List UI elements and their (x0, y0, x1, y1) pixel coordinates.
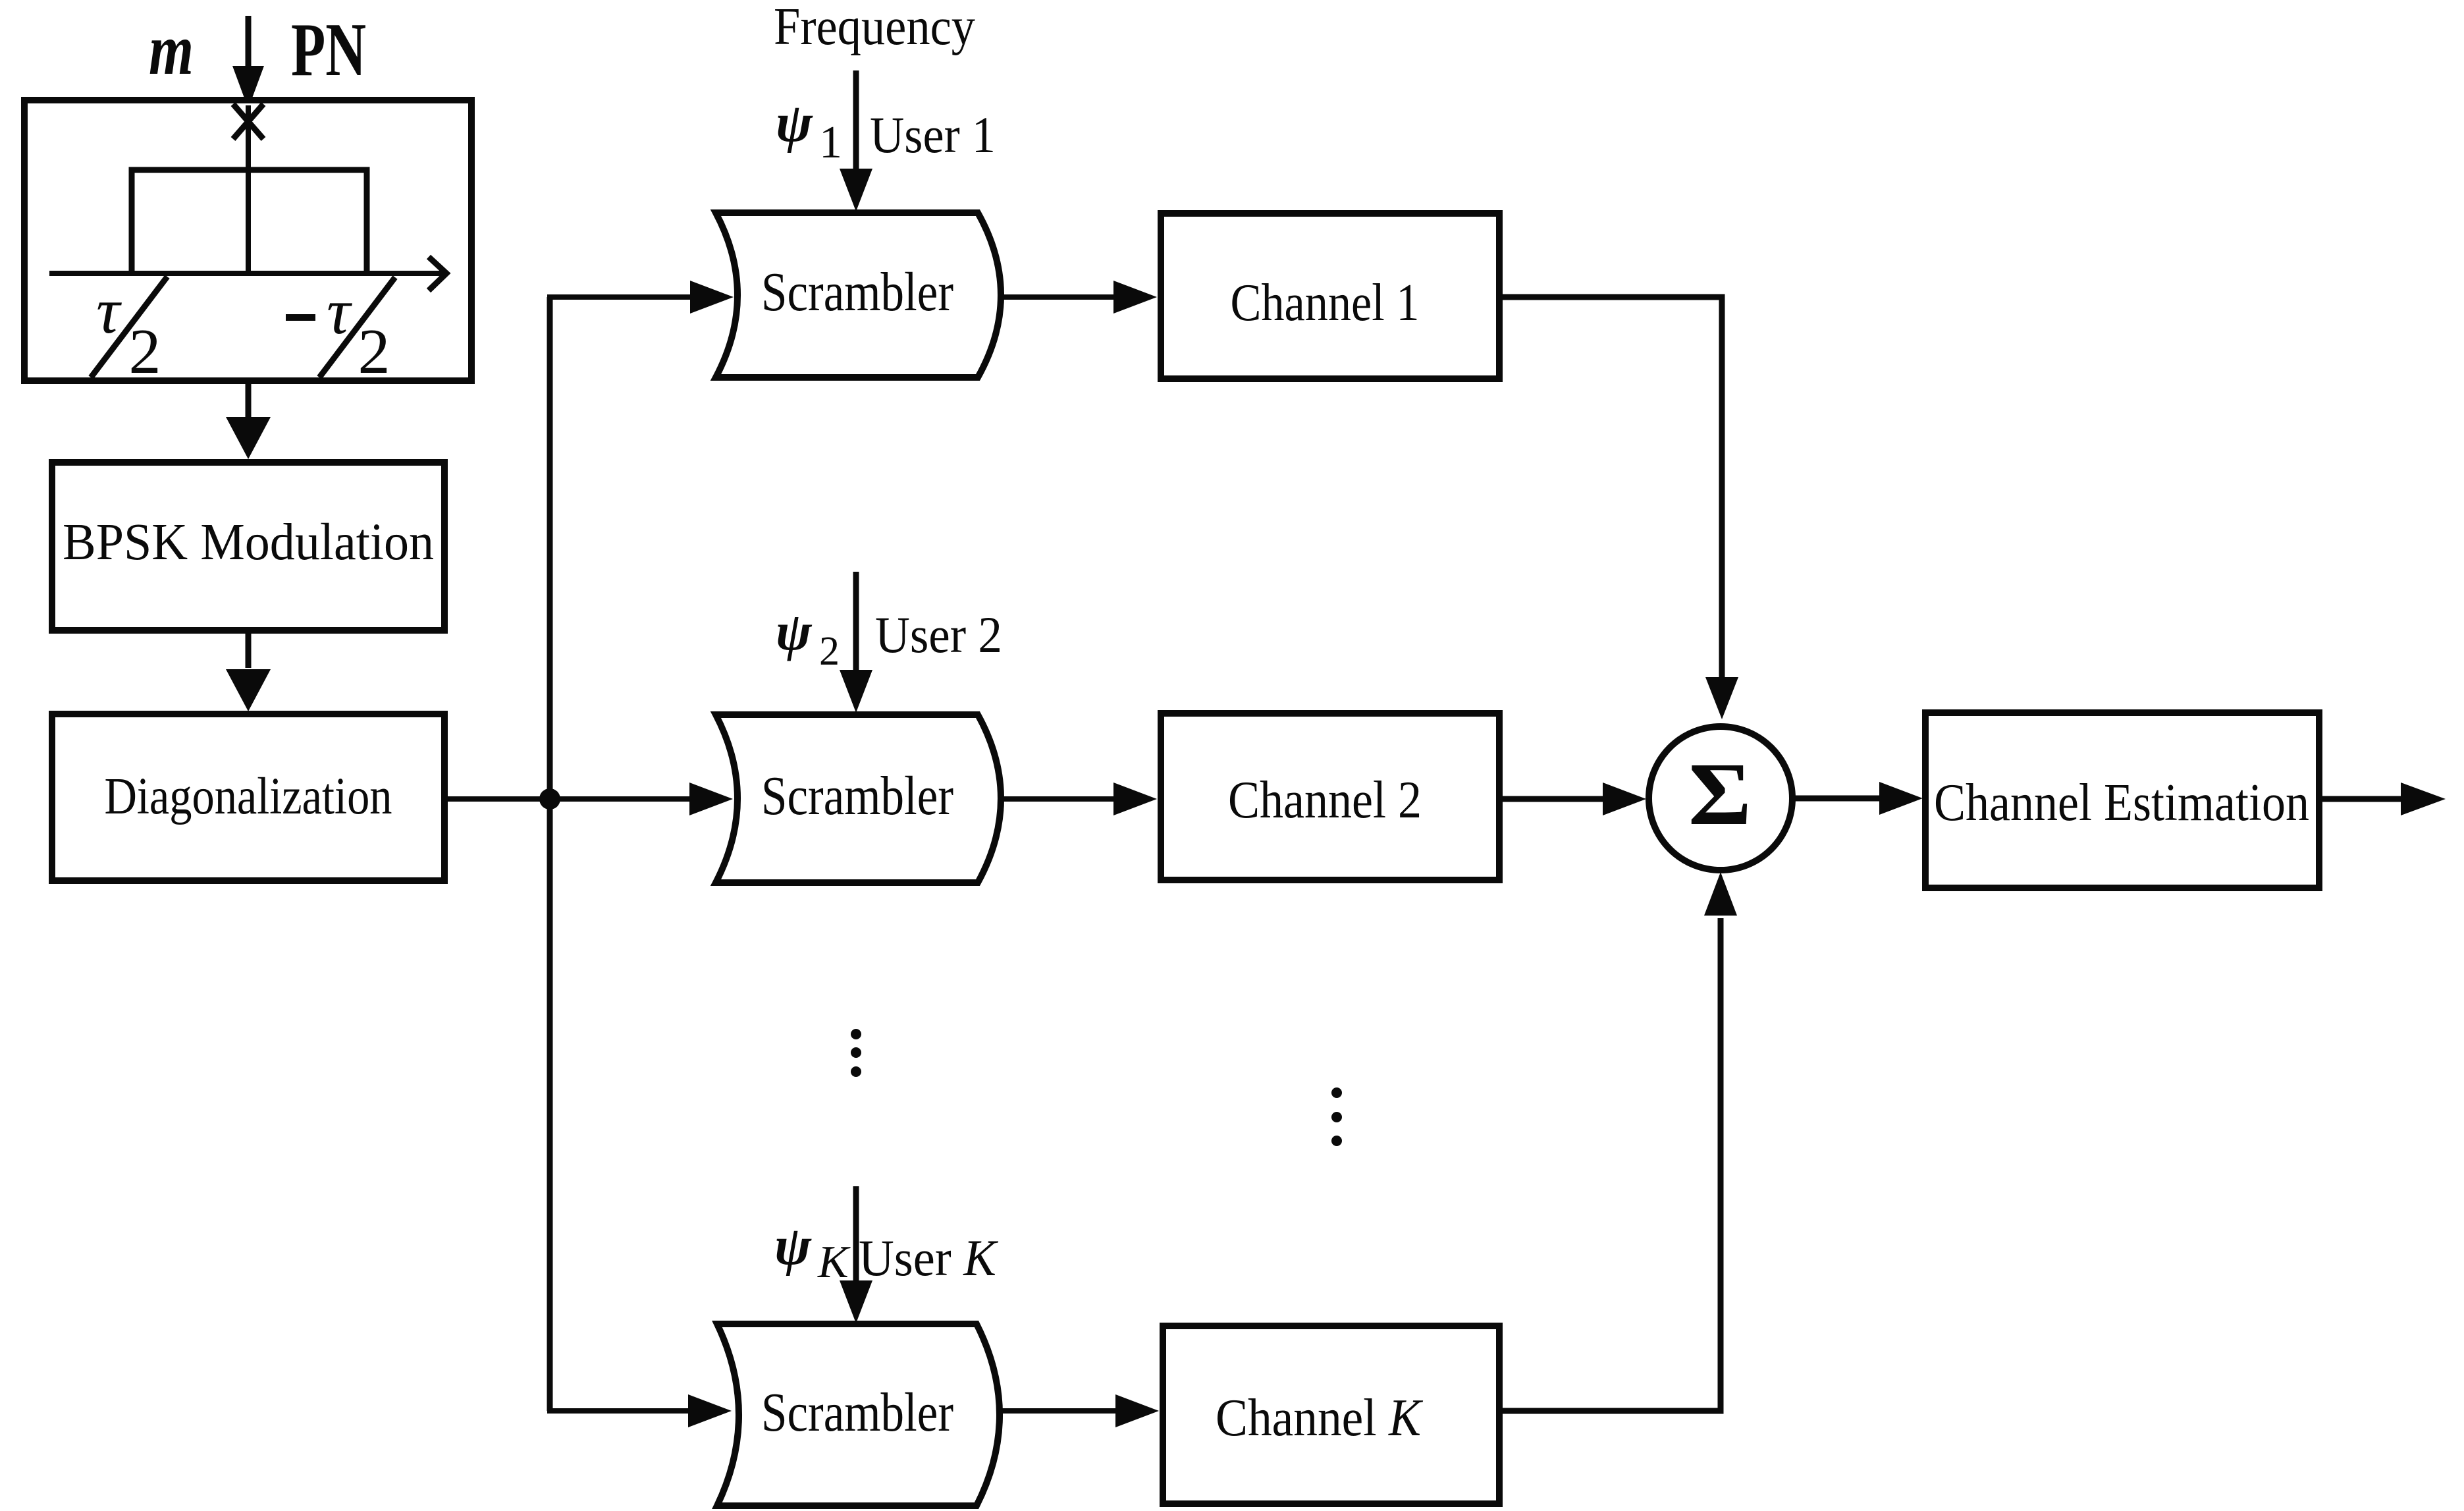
svg-text:τ: τ (96, 274, 122, 347)
svg-text:User 1: User 1 (870, 106, 996, 163)
junction node dot (539, 788, 560, 810)
time axis with arrow (49, 257, 446, 290)
svg-text:Scrambler: Scrambler (761, 1382, 953, 1443)
label psi 1 (776, 92, 842, 168)
box Channel 2 (1161, 713, 1499, 880)
dots between channel rows (1331, 1087, 1342, 1146)
box pulse waveform (24, 100, 471, 381)
svg-text:Frequency: Frequency (774, 0, 975, 56)
svg-text:Diagonalization: Diagonalization (105, 768, 392, 825)
scrambler SK (717, 1324, 1000, 1506)
box Channel Estimation (1925, 713, 2319, 888)
svg-text:BPSK Modulation: BPSK Modulation (63, 514, 434, 571)
wire Channel K to sum (1499, 918, 1721, 1411)
wire psi2 arrow into Scrambler 2 (840, 572, 872, 713)
svg-text:PN: PN (291, 8, 366, 92)
wire vertical branch (547, 297, 553, 1411)
pulse rectangle (132, 170, 367, 273)
svg-text:Channel 1: Channel 1 (1231, 274, 1420, 332)
svg-text:ψ: ψ (776, 92, 813, 153)
svg-text:τ: τ (327, 275, 352, 348)
svg-text:Scrambler: Scrambler (761, 261, 953, 323)
wire PN input vertical (232, 16, 264, 109)
box Channel 1 (1161, 213, 1499, 379)
svg-text:K: K (817, 1237, 851, 1288)
box BPSK Modulation (52, 462, 444, 630)
box Channel K (1163, 1326, 1499, 1504)
node multiplier X (233, 104, 263, 139)
label minus right (286, 314, 315, 321)
svg-text:2: 2 (129, 316, 161, 387)
wire Channel 2 to sum (1499, 783, 1646, 815)
wire BPSK to Diagonalization (226, 630, 271, 711)
box Diagonalization (52, 714, 444, 881)
svg-text:Channel 2: Channel 2 (1228, 771, 1422, 829)
svg-text:2: 2 (358, 316, 390, 387)
wire Scrambler 2 to Channel 2 (1001, 783, 1157, 815)
label psi 2 (776, 601, 840, 674)
wire output arrow (2319, 783, 2446, 815)
label psi K (774, 1215, 851, 1288)
svg-text:Channel Estimation: Channel Estimation (1934, 774, 2309, 832)
wire psi1 arrow into Scrambler 1 (840, 70, 872, 211)
wire branch to Scrambler K (547, 1394, 732, 1427)
summer sigma circle (1649, 727, 1792, 870)
slash tau/2 left (91, 277, 167, 377)
dots between scrambler rows (851, 1029, 861, 1077)
svg-text:ψ: ψ (776, 601, 813, 661)
wire Scrambler K to Channel K (1001, 1394, 1159, 1427)
scrambler S1 (716, 213, 1001, 377)
wire Scrambler 1 to Channel 1 (1002, 281, 1157, 314)
svg-text:ψ: ψ (774, 1215, 812, 1277)
svg-text:User 2: User 2 (875, 606, 1002, 663)
svg-text:1: 1 (819, 117, 842, 168)
wire center vertical inside box (246, 105, 251, 273)
svg-text:m: m (149, 9, 194, 90)
svg-text:Channel K: Channel K (1216, 1389, 1423, 1447)
svg-text:2: 2 (819, 629, 840, 674)
svg-text:User K: User K (859, 1229, 999, 1286)
wire Channel 1 to sum (1499, 297, 1722, 678)
wire psiK arrow into Scrambler K (840, 1186, 872, 1323)
wire sum to Channel Estimation (1793, 782, 1923, 815)
wire branch to Scrambler 1 (547, 281, 734, 314)
wire Diagonalization to Scrambler 2 (444, 783, 733, 815)
svg-text:Σ: Σ (1688, 745, 1752, 844)
scrambler S2 (716, 715, 1001, 883)
svg-text:Scrambler: Scrambler (761, 765, 953, 827)
wire waveform box to BPSK (226, 381, 271, 459)
slash -tau/2 right (319, 277, 395, 377)
